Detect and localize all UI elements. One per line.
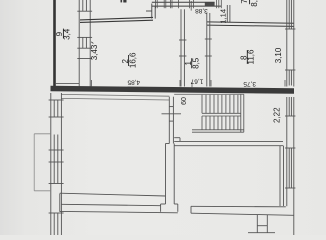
svg-text:3,4: 3,4 [63, 28, 72, 40]
svg-text:1,14: 1,14 [219, 9, 228, 24]
svg-text:3,43: 3,43 [90, 44, 99, 60]
svg-text:2,22: 2,22 [272, 107, 281, 123]
svg-text:4,85: 4,85 [127, 79, 140, 86]
svg-text:8,: 8, [250, 0, 259, 7]
svg-text:11,6: 11,6 [246, 49, 255, 65]
svg-text:60: 60 [181, 97, 188, 105]
svg-text:3,88: 3,88 [195, 7, 208, 14]
svg-text:16,6: 16,6 [128, 52, 137, 68]
svg-text:7: 7 [240, 0, 249, 4]
svg-text:3,10: 3,10 [274, 47, 283, 63]
svg-text:8,5: 8,5 [191, 57, 200, 69]
svg-text:3,75: 3,75 [243, 80, 256, 87]
svg-text:1,67: 1,67 [190, 78, 203, 85]
